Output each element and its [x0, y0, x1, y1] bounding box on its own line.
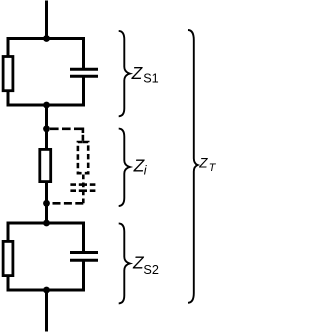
- capacitor (Z_S1 branch): plates: [70, 69, 98, 76]
- capacitor (Z_S1 branch): bottom lead: [82, 76, 85, 106]
- wire: top terminal lead: [45, 1, 48, 39]
- svg-text:Z: Z: [198, 156, 208, 171]
- node: junction at top of Z_i dashed branch: [43, 125, 50, 132]
- label Z_i: [133, 156, 148, 178]
- dashed wire: vertical lead through dashed capacitor: [82, 175, 85, 204]
- node: junction at top rail of Z_S2: [43, 220, 50, 227]
- dashed wire: top feed of Z_i parallel branch (horizontal run): [50, 128, 84, 131]
- capacitor (Z_S1 branch): top lead: [82, 37, 85, 69]
- brace for Z_T (total impedance): [188, 30, 198, 303]
- svg-text:S1: S1: [143, 72, 159, 86]
- dashed capacitor (Z_i parallel branch): top plate: [70, 183, 95, 186]
- brace for Z_S1: [119, 31, 130, 116]
- resistor (Z_i series element): [40, 149, 51, 181]
- node: junction at bottom rail of Z_S1: [43, 102, 50, 109]
- wire: left branch of Z_S2 loop: [7, 222, 10, 292]
- resistor (Z_S1 branch): [3, 57, 13, 91]
- svg-text:Z: Z: [131, 63, 144, 83]
- svg-text:S2: S2: [143, 263, 159, 277]
- node: junction of top rail: [43, 35, 50, 42]
- wire: bottom terminal lead: [45, 290, 48, 332]
- dashed wire: top feed corner wrap: [82, 128, 85, 134]
- capacitor (Z_S2 branch): bottom lead: [82, 260, 85, 291]
- brace for Z_i: [119, 129, 130, 206]
- node: junction at bottom rail of Z_S2: [43, 287, 50, 294]
- wire: main vertical between Z_S1 and Z_S2 loops: [45, 105, 48, 223]
- capacitor (Z_S2 branch): plates: [70, 253, 98, 261]
- wire: bottom rail of Z_S2 loop: [7, 289, 86, 292]
- brace for Z_S2: [119, 223, 130, 303]
- dashed wire: bottom feed of Z_i parallel branch: [50, 202, 83, 205]
- dashed capacitor (Z_i parallel branch): bottom plate: [70, 189, 95, 192]
- label Z_S1: [131, 63, 159, 86]
- label Z_S2: [132, 252, 159, 277]
- node: junction at bottom of Z_i dashed branch: [43, 200, 50, 207]
- wire: top rail of Z_S1 loop: [7, 37, 86, 40]
- wire: left branch of Z_S1 loop: [7, 37, 10, 107]
- resistor (Z_S2 branch): [3, 241, 13, 275]
- capacitor (Z_S2 branch): top lead: [82, 222, 85, 253]
- wire: top rail of Z_S2 loop: [7, 222, 86, 225]
- dashed resistor (Z_i parallel branch): [78, 142, 88, 173]
- wire: bottom rail of Z_S1 loop: [7, 104, 86, 107]
- label Z_T: [198, 156, 217, 174]
- dashed wire: top feed vertical dash into dashed resistor: [82, 135, 85, 141]
